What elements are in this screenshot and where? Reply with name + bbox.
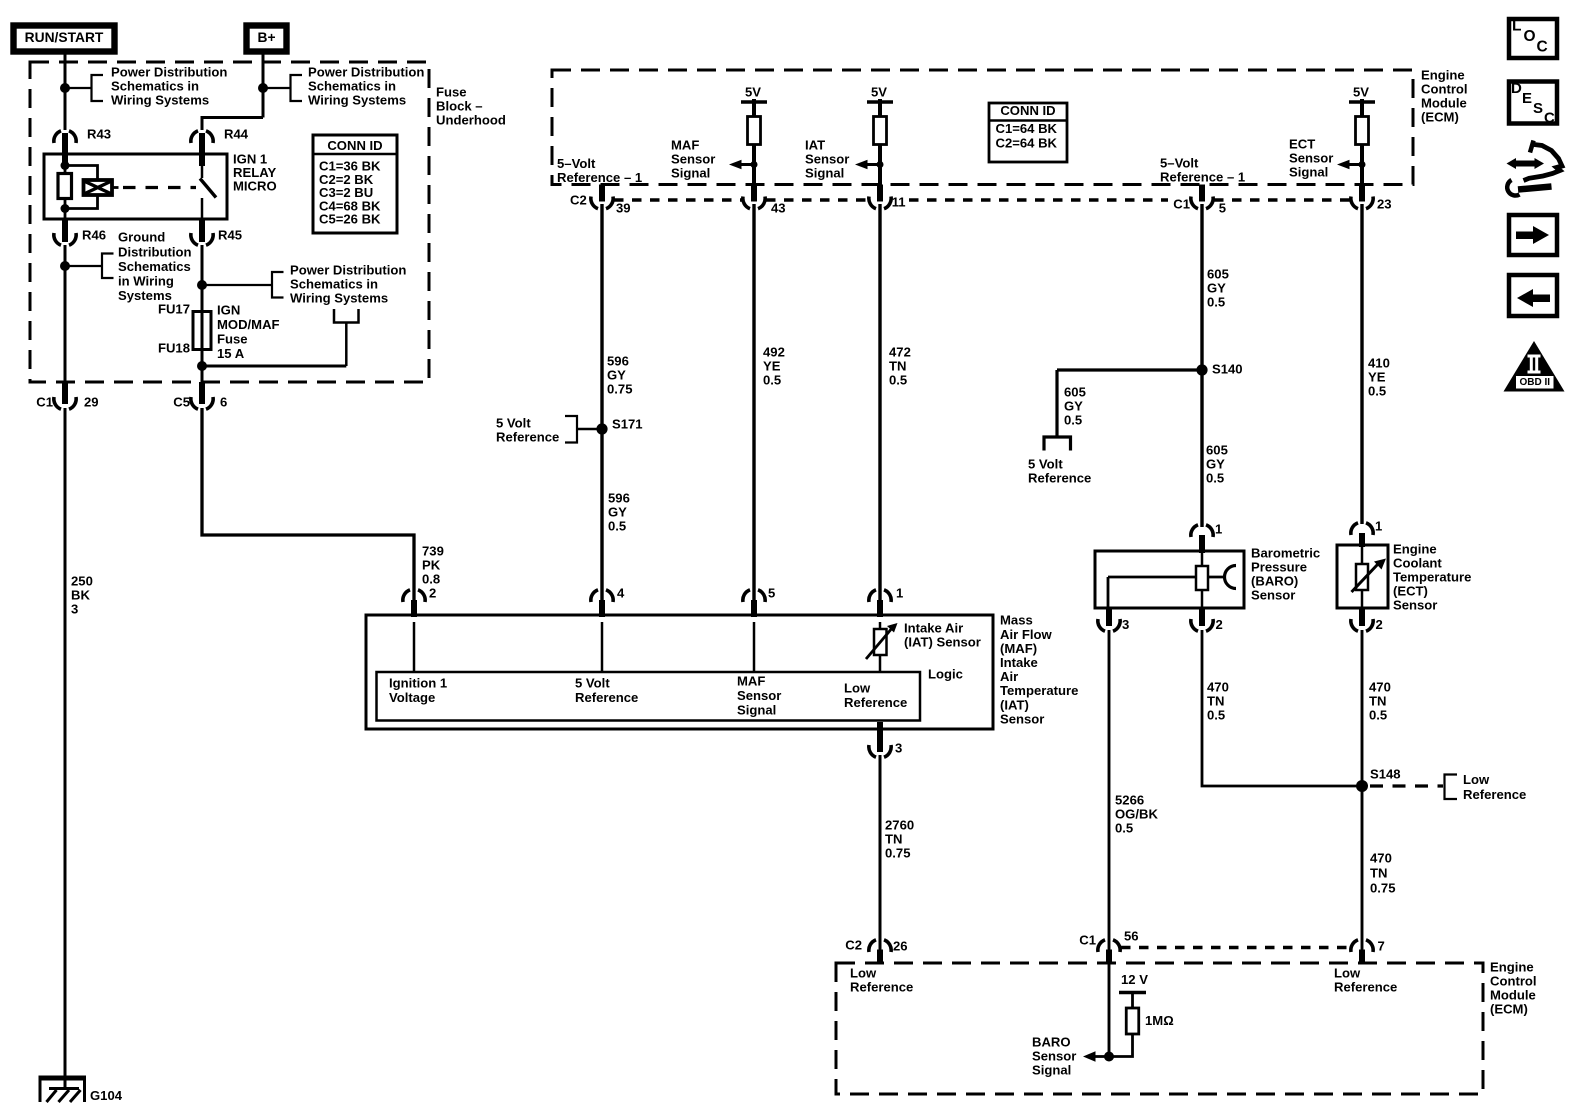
svg-text:GY: GY (608, 505, 627, 520)
svg-text:0.5: 0.5 (1207, 295, 1225, 310)
svg-text:R44: R44 (224, 127, 249, 142)
svg-text:Power Distribution: Power Distribution (111, 65, 227, 80)
svg-text:Signal: Signal (671, 166, 710, 181)
svg-text:Temperature: Temperature (1393, 570, 1471, 585)
svg-text:605: 605 (1064, 385, 1086, 400)
svg-text:MAF: MAF (737, 674, 765, 689)
svg-text:23: 23 (1377, 197, 1392, 212)
svg-text:(IAT): (IAT) (1000, 697, 1029, 712)
svg-text:ECT: ECT (1289, 137, 1315, 152)
svg-text:1: 1 (1215, 522, 1222, 537)
svg-text:C1: C1 (36, 395, 53, 410)
svg-text:Reference: Reference (1028, 471, 1091, 486)
svg-text:BK: BK (71, 588, 90, 603)
svg-text:43: 43 (771, 201, 786, 216)
svg-text:Intake: Intake (1000, 655, 1038, 670)
svg-text:605: 605 (1206, 443, 1228, 458)
svg-text:Schematics in: Schematics in (111, 79, 199, 94)
svg-text:CONN ID: CONN ID (1000, 103, 1055, 118)
svg-text:(BARO): (BARO) (1251, 574, 1298, 589)
svg-text:C1: C1 (1173, 197, 1190, 212)
svg-text:0.75: 0.75 (1370, 880, 1395, 895)
svg-text:Ignition 1: Ignition 1 (389, 676, 447, 691)
svg-text:596: 596 (608, 491, 630, 506)
svg-text:S171: S171 (612, 417, 643, 432)
svg-text:Sensor: Sensor (671, 152, 715, 167)
svg-text:GY: GY (1064, 399, 1083, 414)
svg-text:D: D (1511, 80, 1522, 97)
svg-text:TN: TN (1369, 694, 1386, 709)
svg-text:Control: Control (1421, 82, 1468, 97)
svg-text:Fuse: Fuse (217, 332, 248, 347)
svg-text:R43: R43 (87, 127, 111, 142)
svg-text:0.5: 0.5 (1064, 413, 1082, 428)
svg-text:0.8: 0.8 (422, 572, 440, 587)
svg-text:Sensor: Sensor (1000, 711, 1044, 726)
svg-text:Engine: Engine (1421, 68, 1465, 83)
svg-text:E: E (1522, 90, 1532, 107)
svg-text:Reference: Reference (1334, 980, 1397, 995)
svg-text:Schematics: Schematics (118, 259, 191, 274)
svg-text:Voltage: Voltage (389, 690, 435, 705)
svg-text:GY: GY (1206, 457, 1225, 472)
svg-text:Block –: Block – (436, 99, 483, 114)
svg-text:CONN ID: CONN ID (327, 138, 382, 153)
svg-text:605: 605 (1207, 267, 1229, 282)
svg-text:56: 56 (1124, 929, 1139, 944)
svg-text:OG/BK: OG/BK (1115, 807, 1158, 822)
svg-text:5V: 5V (1353, 85, 1369, 100)
svg-text:3: 3 (71, 602, 78, 617)
svg-text:Wiring Systems: Wiring Systems (111, 93, 209, 108)
svg-text:Reference – 1: Reference – 1 (557, 170, 642, 185)
svg-text:Signal: Signal (1289, 165, 1328, 180)
svg-text:0.5: 0.5 (1369, 708, 1387, 723)
svg-text:0.5: 0.5 (608, 519, 626, 534)
svg-text:Low: Low (844, 681, 871, 696)
svg-text:5: 5 (1219, 201, 1226, 216)
svg-text:596: 596 (607, 354, 629, 369)
svg-text:(ECT): (ECT) (1393, 583, 1428, 598)
svg-text:29: 29 (84, 395, 99, 410)
svg-text:Sensor: Sensor (805, 152, 849, 167)
svg-text:Low: Low (1334, 966, 1361, 981)
svg-text:C5=26 BK: C5=26 BK (319, 212, 381, 227)
svg-text:Engine: Engine (1490, 960, 1534, 975)
svg-text:Sensor: Sensor (1032, 1049, 1076, 1064)
svg-text:250: 250 (71, 574, 93, 589)
svg-text:5V: 5V (871, 85, 887, 100)
svg-text:(ECM): (ECM) (1421, 109, 1459, 124)
svg-text:26: 26 (893, 939, 908, 954)
svg-text:1: 1 (1375, 519, 1382, 534)
svg-text:Low: Low (850, 966, 877, 981)
svg-text:IAT: IAT (805, 138, 825, 153)
svg-text:11: 11 (892, 195, 906, 210)
svg-text:Module: Module (1490, 988, 1536, 1003)
svg-text:Pressure: Pressure (1251, 560, 1307, 575)
svg-text:2760: 2760 (885, 818, 914, 833)
svg-text:S140: S140 (1212, 362, 1243, 377)
svg-text:S148: S148 (1370, 767, 1401, 782)
svg-text:(ECM): (ECM) (1490, 1001, 1528, 1016)
svg-text:Reference: Reference (575, 690, 638, 705)
svg-text:TN: TN (1370, 866, 1387, 881)
svg-text:C2: C2 (570, 193, 587, 208)
svg-text:Wiring Systems: Wiring Systems (308, 93, 406, 108)
svg-text:IGN: IGN (217, 303, 240, 318)
svg-text:Barometric: Barometric (1251, 546, 1320, 561)
svg-text:B+: B+ (257, 30, 275, 45)
svg-text:Sensor: Sensor (1289, 151, 1333, 166)
svg-text:BARO: BARO (1032, 1035, 1071, 1050)
svg-text:472: 472 (889, 345, 911, 360)
svg-text:G104: G104 (90, 1088, 123, 1103)
svg-text:3: 3 (1122, 617, 1129, 632)
svg-text:C: C (1544, 110, 1555, 127)
svg-text:4: 4 (617, 586, 625, 601)
svg-text:R45: R45 (218, 228, 242, 243)
svg-text:FU17: FU17 (158, 302, 190, 317)
svg-text:470: 470 (1370, 851, 1392, 866)
svg-text:Reference: Reference (1463, 787, 1526, 802)
svg-text:C2=64 BK: C2=64 BK (996, 136, 1058, 151)
svg-text:Sensor: Sensor (737, 688, 781, 703)
svg-text:O: O (1524, 28, 1536, 45)
svg-text:Fuse: Fuse (436, 85, 467, 100)
svg-text:Ground: Ground (118, 230, 165, 245)
svg-text:5V: 5V (745, 85, 761, 100)
svg-text:Signal: Signal (805, 166, 844, 181)
svg-text:Coolant: Coolant (1393, 556, 1442, 571)
svg-text:Sensor: Sensor (1393, 597, 1437, 612)
svg-text:YE: YE (763, 359, 781, 374)
svg-text:5 Volt: 5 Volt (575, 676, 610, 691)
svg-text:Wiring Systems: Wiring Systems (290, 291, 388, 306)
svg-text:Power Distribution: Power Distribution (290, 263, 406, 278)
svg-text:0.5: 0.5 (889, 373, 907, 388)
svg-text:Low: Low (1463, 772, 1490, 787)
svg-text:Power Distribution: Power Distribution (308, 65, 424, 80)
svg-text:GY: GY (1207, 281, 1226, 296)
svg-text:Signal: Signal (1032, 1063, 1071, 1078)
svg-text:Reference – 1: Reference – 1 (1160, 170, 1245, 185)
svg-text:C5: C5 (173, 395, 190, 410)
svg-text:Air: Air (1000, 669, 1018, 684)
svg-text:L: L (1512, 18, 1521, 35)
svg-text:S: S (1533, 100, 1543, 117)
svg-text:2: 2 (429, 586, 436, 601)
svg-text:470: 470 (1369, 680, 1391, 695)
svg-text:5 Volt: 5 Volt (496, 416, 531, 431)
svg-text:MOD/MAF: MOD/MAF (217, 317, 280, 332)
svg-text:15 A: 15 A (217, 346, 245, 361)
svg-text:C1: C1 (1079, 933, 1096, 948)
svg-text:5266: 5266 (1115, 793, 1144, 808)
svg-text:Air Flow: Air Flow (1000, 627, 1052, 642)
svg-text:0.5: 0.5 (1206, 471, 1224, 486)
svg-text:MICRO: MICRO (233, 179, 277, 194)
svg-text:(IAT) Sensor: (IAT) Sensor (904, 635, 981, 650)
svg-text:1: 1 (896, 586, 903, 601)
svg-text:C2: C2 (845, 938, 862, 953)
svg-text:3: 3 (895, 741, 902, 756)
svg-text:0.75: 0.75 (607, 382, 632, 397)
svg-text:39: 39 (616, 201, 631, 216)
svg-text:Control: Control (1490, 974, 1537, 989)
svg-text:YE: YE (1368, 370, 1386, 385)
svg-text:0.5: 0.5 (1368, 384, 1386, 399)
svg-text:Schematics in: Schematics in (308, 79, 396, 94)
svg-text:Reference: Reference (496, 430, 559, 445)
svg-text:6: 6 (220, 395, 227, 410)
svg-text:Temperature: Temperature (1000, 683, 1078, 698)
svg-text:Intake Air: Intake Air (904, 621, 963, 636)
svg-text:Sensor: Sensor (1251, 587, 1295, 602)
svg-text:PK: PK (422, 558, 441, 573)
svg-text:7: 7 (1378, 939, 1385, 954)
svg-text:Reference: Reference (850, 980, 913, 995)
svg-text:RUN/START: RUN/START (25, 30, 104, 45)
svg-text:TN: TN (885, 832, 902, 847)
svg-text:Engine: Engine (1393, 542, 1437, 557)
svg-text:in Wiring: in Wiring (118, 274, 174, 289)
svg-text:FU18: FU18 (158, 341, 190, 356)
svg-text:Mass: Mass (1000, 613, 1033, 628)
svg-text:410: 410 (1368, 356, 1390, 371)
svg-text:Reference: Reference (844, 695, 907, 710)
svg-text:TN: TN (889, 359, 906, 374)
svg-text:12 V: 12 V (1121, 972, 1148, 987)
svg-text:5 Volt: 5 Volt (1028, 457, 1063, 472)
svg-text:0.75: 0.75 (885, 846, 910, 861)
svg-text:5–Volt: 5–Volt (557, 156, 596, 171)
svg-text:C1=64 BK: C1=64 BK (996, 121, 1058, 136)
svg-text:C: C (1537, 39, 1548, 56)
svg-text:TN: TN (1207, 694, 1224, 709)
svg-text:Module: Module (1421, 96, 1467, 111)
svg-text:2: 2 (1376, 617, 1383, 632)
svg-text:0.5: 0.5 (1115, 821, 1133, 836)
svg-text:5: 5 (768, 586, 775, 601)
svg-text:0.5: 0.5 (1207, 708, 1225, 723)
svg-text:470: 470 (1207, 680, 1229, 695)
svg-text:(MAF): (MAF) (1000, 641, 1037, 656)
svg-text:R46: R46 (82, 228, 106, 243)
svg-text:2: 2 (1216, 617, 1223, 632)
svg-text:Signal: Signal (737, 703, 776, 718)
svg-text:MAF: MAF (671, 138, 699, 153)
svg-text:OBD II: OBD II (1520, 377, 1551, 388)
svg-text:GY: GY (607, 368, 626, 383)
svg-text:Distribution: Distribution (118, 244, 191, 259)
svg-text:5–Volt: 5–Volt (1160, 156, 1199, 171)
svg-text:Logic: Logic (928, 667, 963, 682)
svg-text:739: 739 (422, 544, 444, 559)
svg-text:Schematics in: Schematics in (290, 277, 378, 292)
svg-text:492: 492 (763, 345, 785, 360)
svg-text:Underhood: Underhood (436, 113, 506, 128)
svg-text:0.5: 0.5 (763, 373, 781, 388)
svg-text:1MΩ: 1MΩ (1145, 1013, 1174, 1028)
